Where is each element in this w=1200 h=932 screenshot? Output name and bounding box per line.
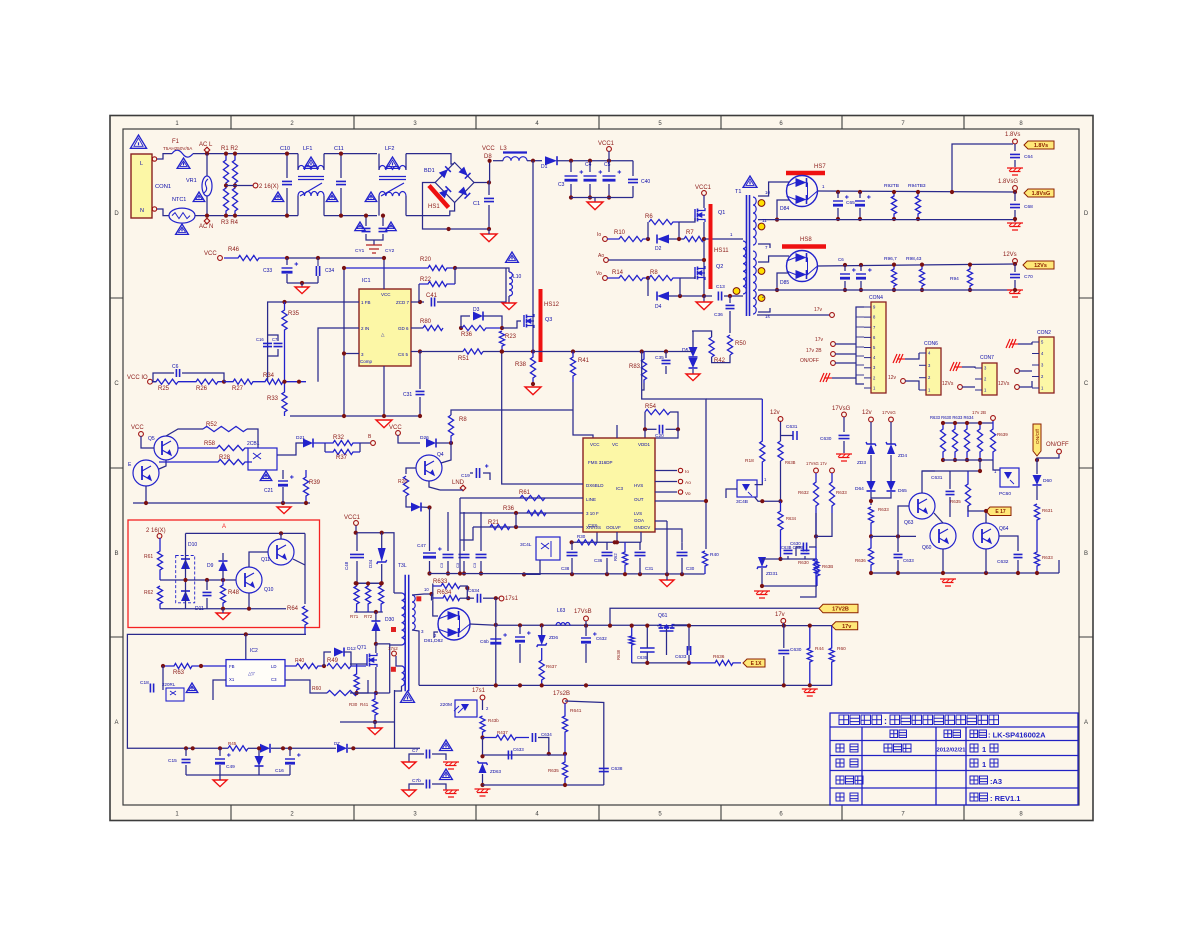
junction C1 bot — [487, 227, 491, 231]
svg-text:VCC1: VCC1 — [344, 515, 361, 521]
zone tick marks — [230, 116, 232, 821]
svg-text:R98,43: R98,43 — [906, 256, 922, 262]
svg-text:Q64: Q64 — [999, 526, 1009, 532]
inductor L3 — [503, 157, 527, 161]
capacitor C66 — [855, 195, 871, 206]
resistor R7 — [684, 236, 704, 241]
wire T1 sec1 d — [758, 244, 770, 248]
svg-text:R38: R38 — [515, 362, 527, 368]
pin AC N — [204, 218, 210, 224]
junction R33 top — [282, 380, 286, 384]
ground 1.8Vs — [1007, 168, 1023, 175]
svg-text:R92TB: R92TB — [884, 183, 899, 189]
wire zd6 t — [541, 625, 543, 635]
wire r54 down — [644, 429, 646, 438]
svg-text:: REV1.1: : REV1.1 — [990, 794, 1020, 803]
capacitor C6M3 — [508, 751, 511, 760]
svg-text:17v: 17v — [775, 612, 785, 618]
wire r54 b down — [655, 429, 678, 438]
junction C66 top — [858, 190, 862, 194]
wire rb right — [304, 533, 306, 604]
wire C4 bot — [589, 184, 591, 198]
svg-text:Io: Io — [597, 232, 601, 238]
wire c43 b — [268, 349, 279, 356]
svg-text:F1: F1 — [172, 139, 180, 145]
wire C31 gnd — [419, 397, 421, 416]
wire con2 a — [1019, 370, 1032, 372]
junction 353 a — [500, 349, 504, 353]
svg-text:C633: C633 — [903, 558, 914, 563]
safety triangle C72 — [440, 769, 453, 780]
svg-text:HS8: HS8 — [800, 237, 812, 243]
wire c6m4 out — [538, 738, 549, 754]
inductor LF2 lead tl — [378, 154, 380, 170]
capacitor C48 — [350, 554, 364, 557]
junction q64 c — [984, 509, 988, 513]
junction d22 — [257, 746, 261, 750]
svg-text:17s2B: 17s2B — [553, 691, 570, 697]
wire d65 b — [871, 492, 891, 498]
svg-text:C15: C15 — [168, 758, 177, 764]
svg-text:R51: R51 — [458, 356, 470, 362]
wire C5 bot — [608, 184, 610, 198]
ground ic2 caps — [213, 780, 227, 787]
wire L to fuse — [157, 154, 172, 159]
svg-text:ZD4: ZD4 — [898, 453, 907, 459]
ground c72 r — [443, 790, 459, 797]
junction 785 b — [563, 783, 567, 787]
safety triangle W3 — [193, 192, 205, 202]
wire C1 bot — [488, 205, 490, 229]
junction cl c — [304, 501, 308, 505]
svg-text:CY1: CY1 — [355, 248, 365, 254]
pin Vo b — [678, 490, 682, 494]
svg-text:T5AH250V/5A: T5AH250V/5A — [163, 146, 193, 151]
resistor R36 — [462, 325, 502, 330]
transformer T1 sec lower — [753, 251, 756, 314]
junction C15 t — [184, 746, 188, 750]
svg-text:C: C — [1084, 381, 1089, 387]
junction R92 t — [892, 190, 896, 194]
wire bottom AC rail — [195, 215, 298, 217]
junction out2 end — [1013, 262, 1017, 266]
wire r8b top — [451, 410, 470, 415]
net label 17v — [832, 622, 858, 630]
svg-text:: LK-SP416002A: : LK-SP416002A — [988, 731, 1046, 740]
resistor R61c — [520, 495, 545, 500]
pin 17v l — [830, 468, 835, 473]
junction cl b — [281, 501, 285, 505]
svg-text:D34: D34 — [368, 559, 373, 568]
svg-text:R6: R6 — [645, 214, 653, 220]
wire c630d l — [796, 547, 801, 556]
svg-text:Q61: Q61 — [658, 613, 668, 619]
junction out1 end — [1013, 190, 1017, 194]
junction q71 s — [374, 691, 378, 695]
junction fb right — [297, 380, 301, 384]
wire q6 down — [145, 486, 147, 503]
wire ic2 gnd stub — [219, 775, 221, 780]
wire IC1 pin2 — [318, 328, 359, 382]
junction 748 b — [281, 746, 285, 750]
capacitor C6c — [515, 631, 531, 642]
svg-text:VCC: VCC — [482, 146, 495, 152]
svg-text:D9: D9 — [207, 563, 214, 569]
junction 344 pin3 — [342, 351, 346, 355]
wire loop left — [431, 594, 433, 601]
capacitor C6 — [176, 369, 179, 377]
CON7 pins — [975, 367, 982, 369]
rectifier D85 anode a — [787, 258, 796, 262]
junction pb 3 — [978, 458, 982, 462]
wire goa down — [666, 521, 668, 574]
wire R22 left — [418, 284, 420, 302]
wire bank gnd stub — [594, 198, 596, 203]
junction r62b — [623, 572, 627, 576]
wire bridge ac2 — [450, 203, 455, 216]
junction 17vsb — [584, 624, 588, 628]
capacitor C15 — [182, 759, 191, 762]
wire IC1 pin3 — [344, 353, 359, 355]
svg-text:R32: R32 — [333, 435, 345, 441]
capacitor C47 — [423, 547, 442, 558]
resistor R92 — [891, 192, 896, 219]
svg-text:Q4: Q4 — [437, 452, 444, 458]
wire C36 stub — [729, 296, 731, 303]
wire c6d a — [585, 626, 587, 636]
ic IC3 texts — [586, 442, 651, 530]
wire top AC rail — [193, 153, 298, 155]
resistor R50 — [727, 335, 732, 355]
wire rc bottom rail — [871, 572, 1059, 574]
wire zd31 row — [781, 558, 818, 560]
wire Q3 drain — [532, 314, 534, 328]
svg-text:OUT: OUT — [634, 497, 644, 502]
svg-text:R94TB3: R94TB3 — [908, 183, 926, 189]
wire t3 aux b — [395, 686, 402, 691]
pin 17vsGb — [889, 417, 894, 422]
wire C31b s — [639, 558, 641, 574]
capacitor C33 — [282, 262, 299, 273]
capacitor C16 — [285, 753, 301, 764]
rectifier D84 diode a — [796, 178, 807, 187]
svg-text:R26: R26 — [196, 386, 208, 392]
wire ic3b 597 — [596, 532, 598, 542]
pin 12Vs — [1013, 259, 1018, 264]
capacitor C13 — [362, 228, 371, 231]
svg-text:R63B: R63B — [822, 564, 833, 569]
svg-text:FB: FB — [229, 664, 235, 669]
transformer T3 core — [405, 575, 409, 692]
wire C65 b — [837, 208, 839, 219]
svg-text:C33: C33 — [263, 268, 272, 274]
svg-text:VR1: VR1 — [186, 178, 197, 184]
resistor R83 — [641, 352, 646, 384]
svg-text:3 10 F: 3 10 F — [586, 511, 599, 516]
bridge diode c — [439, 186, 451, 198]
svg-text:CON1: CON1 — [155, 184, 171, 190]
CON4 stub 356 — [856, 355, 864, 357]
junction T1 tap1 — [775, 218, 779, 222]
capacitor C63b — [640, 648, 655, 652]
svg-text:R36: R36 — [503, 506, 515, 512]
title company name row — [839, 715, 882, 725]
wire cap bank bottom — [571, 197, 633, 199]
svg-text:C636: C636 — [637, 655, 648, 660]
solder pad T1b — [758, 223, 765, 230]
pin 12v con6 — [901, 379, 906, 384]
wire C49 b2 — [219, 765, 221, 775]
inductor LF2 lead bl — [378, 196, 380, 216]
wire capsrow gnd — [666, 574, 668, 580]
capacitor C6d — [581, 632, 597, 643]
svg-text:HS12: HS12 — [544, 302, 560, 308]
junction rb mid c — [221, 578, 225, 582]
svg-text:R40: R40 — [295, 658, 304, 664]
svg-text:17s2: 17s2 — [388, 646, 398, 651]
wire gnd con4 — [832, 377, 856, 379]
svg-text:BD1: BD1 — [424, 168, 435, 174]
junction pin6 end — [500, 326, 504, 330]
wire par bot — [943, 459, 993, 461]
svg-text:R36: R36 — [461, 332, 473, 338]
junction R93 b — [916, 217, 920, 221]
pin 17v con4 — [831, 342, 836, 347]
junction C11 top — [339, 152, 343, 156]
svg-text:△▽: △▽ — [248, 671, 255, 676]
svg-text:17VsG 17v: 17VsG 17v — [806, 461, 828, 466]
capacitor C30b — [677, 552, 688, 555]
wire aux loop top — [127, 634, 306, 748]
wire c632b b — [1017, 560, 1019, 573]
resistor R635 — [965, 471, 970, 517]
wire C1 top — [488, 183, 490, 196]
wire D4 branch — [647, 278, 649, 296]
wire r52 left — [166, 429, 203, 436]
resistor R21 — [490, 524, 510, 529]
svg-text:C631: C631 — [931, 475, 943, 481]
junction C65 bot — [836, 217, 840, 221]
wire d22 b — [258, 766, 260, 775]
safety triangle LF1 — [304, 157, 318, 168]
svg-text:D1: D1 — [541, 164, 548, 170]
junction C34 — [316, 256, 320, 260]
capacitor C10 — [282, 181, 292, 184]
wire L3 in — [493, 160, 503, 162]
svg-text:12v: 12v — [888, 375, 897, 381]
wire q71 gate w — [350, 663, 367, 665]
svg-text:Q5: Q5 — [148, 436, 155, 442]
wire ic2 vcc — [245, 634, 247, 659]
capacitor C43 — [274, 343, 283, 346]
wire par down — [979, 460, 981, 471]
wire q63 c — [922, 471, 935, 493]
inductor LF1 winding bottom — [298, 191, 324, 196]
svg-text:GOA: GOA — [634, 518, 644, 523]
wire out rail 1 bottom — [777, 219, 1015, 221]
wire c71 r — [432, 754, 446, 760]
svg-text:17V2B: 17V2B — [832, 607, 849, 613]
resistor R10 — [607, 236, 648, 241]
wire q64 c — [985, 511, 987, 523]
capacitor C3 — [565, 170, 584, 181]
zener ZD4 — [886, 442, 896, 454]
svg-text:D12: D12 — [347, 646, 356, 652]
junction rcb 1018 — [1016, 571, 1020, 575]
net label 17V2B — [819, 604, 858, 613]
wire d12 out — [344, 652, 351, 666]
svg-text:C3: C3 — [472, 562, 477, 568]
junction rb mid b — [205, 578, 209, 582]
wire d60 b — [1036, 486, 1038, 500]
pin VCC1 node — [607, 147, 612, 152]
junction C4 bot — [588, 195, 592, 199]
wire C4 top — [589, 161, 591, 172]
junction loop r2 — [466, 596, 470, 600]
wire C6 out — [182, 373, 224, 382]
svg-text:12Vs: 12Vs — [998, 381, 1010, 387]
wire r41 down — [573, 382, 593, 438]
svg-text:17s1: 17s1 — [505, 596, 519, 602]
junction row756 — [480, 754, 484, 758]
junction ic2 top — [244, 632, 248, 636]
svg-text:CON4: CON4 — [869, 295, 883, 301]
junction R93 t — [916, 190, 920, 194]
capacitor C22 — [203, 592, 212, 595]
junction onb — [1035, 458, 1039, 462]
wire row 785 — [483, 784, 604, 786]
junction 17v — [782, 624, 786, 628]
svg-text:VC: VC — [612, 442, 619, 447]
wire ic3 b641 — [640, 532, 642, 542]
title model no — [970, 730, 987, 738]
wire 722 vert — [394, 690, 396, 748]
svg-text:CSS: CSS — [588, 523, 597, 528]
ground con2 — [1006, 339, 1018, 348]
pin 17s1 b — [480, 695, 485, 700]
wire C30b s — [681, 558, 683, 574]
wire d34 t — [381, 533, 383, 548]
junction pb 0 — [941, 458, 945, 462]
svg-text:C10: C10 — [280, 146, 290, 152]
svg-text:D8: D8 — [484, 154, 492, 160]
wire HV rail down — [532, 161, 534, 315]
wire d34 b — [381, 564, 383, 583]
wire c19 r — [483, 473, 490, 480]
wire c633c a — [897, 536, 899, 552]
wire bridge left — [423, 183, 490, 230]
wire pc1b l — [726, 489, 737, 498]
svg-text:R634: R634 — [437, 590, 452, 596]
junction d64 — [869, 499, 873, 503]
junction pt 0 — [941, 421, 945, 425]
svg-text:11: 11 — [762, 218, 767, 223]
inductor LF1 winding top — [298, 165, 324, 170]
capacitor C44 — [443, 554, 454, 557]
junction CY — [364, 214, 368, 218]
svg-text:A: A — [114, 720, 118, 726]
svg-text:R30: R30 — [349, 702, 358, 707]
wire C5 top — [608, 161, 610, 172]
capacitor C632b — [1014, 554, 1023, 557]
ground c71 — [402, 762, 416, 769]
svg-text:C632: C632 — [596, 636, 607, 641]
capacitor C68 — [1010, 204, 1020, 207]
capacitor C63d — [801, 550, 810, 553]
junction 685 495 — [494, 683, 498, 687]
wire d22 a — [258, 748, 260, 756]
title row approve — [836, 793, 858, 801]
junction gnd rail a — [342, 414, 346, 418]
pin 17vsg l — [814, 468, 819, 473]
border frame outer — [110, 116, 1093, 821]
resistor R63b — [629, 626, 634, 663]
resistor R74 — [354, 664, 359, 693]
capacitor C6b — [490, 633, 507, 644]
junction C49 t — [218, 746, 222, 750]
resistor R54 — [645, 409, 670, 414]
svg-text:R54: R54 — [645, 404, 657, 410]
svg-text:C6: C6 — [838, 257, 844, 262]
wire divider tap — [226, 185, 253, 187]
wire D4 out — [669, 295, 704, 297]
heatsink HS1 — [429, 186, 449, 208]
wire C68 gnd — [1014, 210, 1016, 222]
svg-text:R62: R62 — [144, 590, 153, 596]
junction cgnd — [300, 281, 304, 285]
wire loop 603 — [565, 701, 604, 785]
svg-text:DX6BLD: DX6BLD — [586, 483, 604, 488]
wire R6 branch up — [647, 222, 649, 239]
wire C68 stub — [1014, 192, 1016, 201]
wire ic2 caps rail — [186, 774, 290, 776]
svg-text:R37: R37 — [336, 455, 348, 461]
svg-text:R634: R634 — [786, 516, 797, 521]
svg-text:D84: D84 — [780, 206, 789, 212]
resistor R73 — [379, 584, 384, 613]
pin con2 a — [1015, 369, 1020, 374]
net label 12Vs — [1023, 261, 1054, 269]
CON4 stub 317 — [856, 316, 864, 318]
wire vcc1 rail — [356, 533, 394, 593]
wire bottom rail ic1 — [290, 415, 420, 417]
wire t3 aux lead — [396, 656, 402, 666]
junction rcb 871 — [869, 571, 873, 575]
bridge rectifier BD1 — [435, 163, 474, 203]
svg-text:D2: D2 — [655, 246, 662, 252]
svg-text:HS1: HS1 — [428, 204, 440, 210]
wire q4 vcc — [398, 435, 420, 443]
junction C65 top — [836, 190, 840, 194]
wire C45 b — [463, 561, 465, 574]
zener ZD63 — [478, 761, 488, 773]
svg-text:VCC1: VCC1 — [695, 185, 712, 191]
pin 12vb — [869, 417, 874, 422]
svg-text:R18: R18 — [745, 458, 754, 464]
svg-text:R631: R631 — [1042, 508, 1053, 513]
wire zd31 t — [762, 558, 781, 560]
wire CY2 stub — [382, 216, 384, 226]
resistor R8b — [448, 415, 453, 443]
svg-text:R633: R633 — [836, 490, 847, 495]
wire c72 r — [432, 784, 446, 790]
junction pin7 — [418, 300, 422, 304]
wire C38 s — [571, 558, 573, 574]
pin 1.8VsG — [1013, 186, 1018, 191]
junction r63b — [630, 624, 634, 628]
capacitor C21 — [278, 475, 294, 486]
wire c630 b — [783, 656, 785, 685]
